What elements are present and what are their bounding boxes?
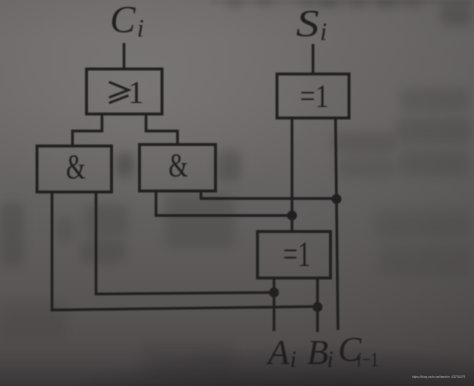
junction dot node P <box>287 211 297 221</box>
xor-gate U5 box <box>258 232 331 279</box>
svg-text:=1: =1 <box>283 234 311 274</box>
or-gate U1 box <box>87 69 163 114</box>
svg-text:i: i <box>327 347 333 372</box>
svg-text:S: S <box>296 3 319 45</box>
xor-gate U2 box <box>277 74 349 118</box>
wire node Bi rail <box>316 278 319 332</box>
svg-text:i: i <box>357 348 361 370</box>
svg-text:B: B <box>307 333 328 372</box>
wire U3 input from Bi <box>52 192 318 310</box>
wire node P rail (A xor B) <box>291 118 294 232</box>
wire U4 input from node P <box>156 191 292 216</box>
wire U4 input from Ci-1 <box>201 191 337 199</box>
svg-text:C: C <box>110 0 136 41</box>
svg-text:&: & <box>66 148 86 187</box>
svg-text:1: 1 <box>128 74 144 110</box>
wire U1 right output <box>146 114 178 145</box>
wire node Ai rail <box>273 278 276 331</box>
junction dot Ci-1 tap <box>332 194 342 204</box>
and-gate U4 box <box>140 145 216 192</box>
watermark <box>412 375 465 379</box>
svg-text:i: i <box>290 347 296 372</box>
svg-text:i: i <box>137 16 144 43</box>
wire U3 input from Ai <box>96 192 274 294</box>
bleed-through smudges <box>116 152 134 178</box>
wire Ci lead <box>123 43 126 69</box>
svg-text:=1: =1 <box>300 77 329 114</box>
wire node Ci-1 rail <box>336 118 339 330</box>
wire Si lead <box>312 44 315 74</box>
and-gate U3 box <box>37 146 112 192</box>
wire U1 left output <box>73 114 103 146</box>
svg-text:i: i <box>320 19 327 46</box>
junction dot Bi tap <box>313 302 323 312</box>
svg-text:−1: −1 <box>362 348 379 370</box>
svg-text:A: A <box>266 333 290 372</box>
junction dot Ai tap <box>269 288 279 298</box>
svg-text:&: & <box>169 147 189 185</box>
label U1 value (gte symbol drawn) <box>109 82 129 103</box>
